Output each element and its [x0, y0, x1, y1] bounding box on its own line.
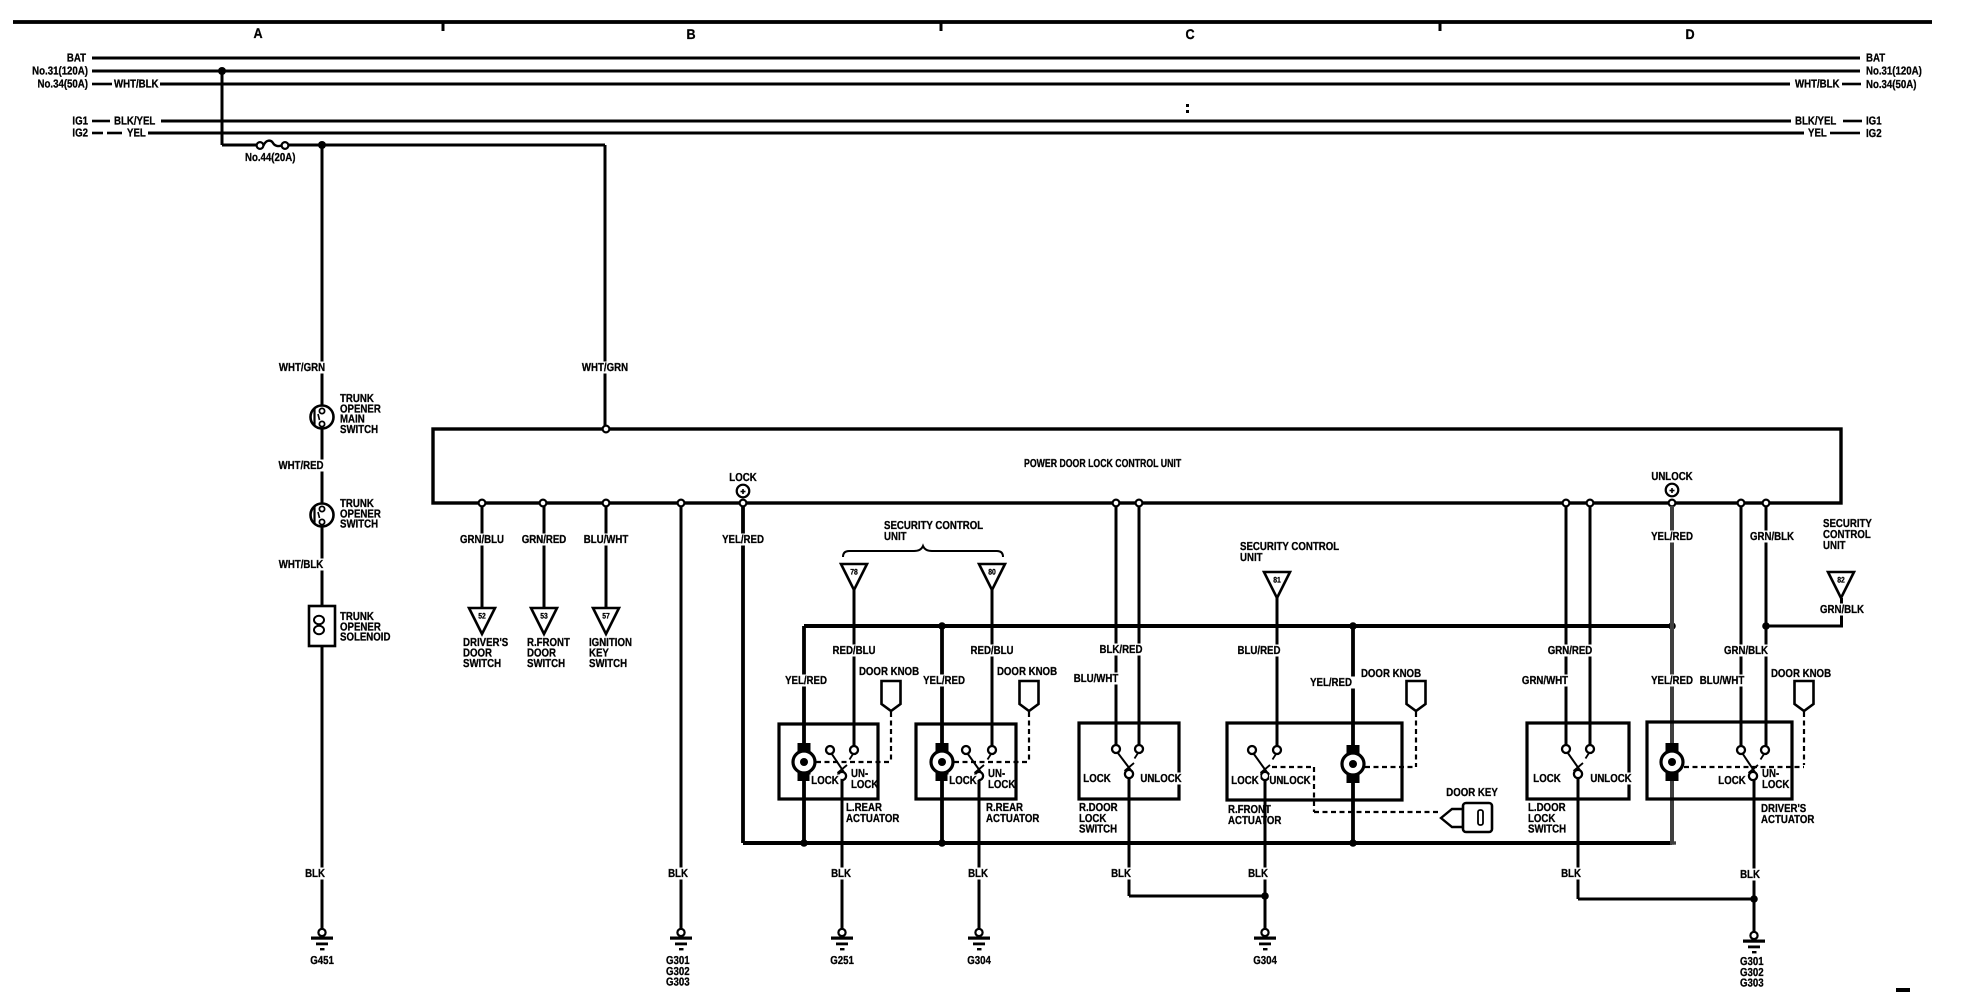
wire BLK l.door to driver's ground link — [1578, 898, 1754, 901]
pin at x=1139 on control unit bottom — [1136, 500, 1143, 507]
r.rear actuator box — [916, 724, 1016, 799]
wire BLK l.rear switch to ground G251 — [841, 780, 844, 930]
junction r.front motor lower bus — [1349, 839, 1357, 847]
svg-text:82: 82 — [1837, 576, 1845, 585]
wire YEL/RED l.rear motor drop — [802, 626, 806, 843]
switch l.door lock — [1562, 745, 1570, 753]
wire main switch to trunk opener switch WHT/RED — [321, 428, 324, 504]
svg-text:WHT/RED: WHT/RED — [278, 460, 323, 472]
svg-text:ACTUATOR: ACTUATOR — [846, 813, 900, 825]
label BLK trunk ground wire — [303, 868, 327, 880]
pin at x=482 on control unit bottom — [479, 500, 486, 507]
svg-text:BLK/YEL: BLK/YEL — [114, 116, 155, 128]
wire BLK driver's switch to ground G301 — [1753, 780, 1756, 933]
connector 57 ignition key switch — [593, 608, 619, 634]
svg-text:57: 57 — [602, 612, 610, 621]
svg-text:G451: G451 — [310, 955, 334, 967]
pin at x=1766 on control unit bottom — [1763, 500, 1770, 507]
svg-text:BLK/YEL: BLK/YEL — [1795, 116, 1836, 128]
connector 82 security control unit — [1828, 572, 1854, 598]
junction upper bus at unlock wire — [1668, 622, 1676, 630]
svg-text:UNIT: UNIT — [1240, 552, 1263, 564]
switch driver's actuator — [1737, 746, 1745, 754]
svg-text:LOCK: LOCK — [851, 779, 879, 791]
svg-text:GRN/RED: GRN/RED — [522, 534, 567, 546]
svg-text:LOCK: LOCK — [729, 472, 757, 484]
ground G304 r.front — [1261, 929, 1268, 936]
svg-text:SWITCH: SWITCH — [589, 658, 627, 670]
svg-text:SWITCH: SWITCH — [463, 658, 501, 670]
wire from No.31 rail down to fuse No.44 — [221, 71, 224, 145]
pin at x=543 on control unit bottom — [540, 500, 547, 507]
label WHT/GRN trunk branch — [277, 362, 327, 374]
svg-text:No.34(50A): No.34(50A) — [1866, 79, 1917, 91]
svg-text:G303: G303 — [1740, 978, 1764, 990]
wire YEL/RED unlock output gray — [1670, 506, 1674, 845]
l.rear actuator box — [779, 724, 878, 799]
svg-text:BAT: BAT — [1866, 53, 1885, 65]
junction upper bus r.rear — [938, 622, 946, 630]
svg-text:SOLENOID: SOLENOID — [340, 632, 390, 644]
wire GRN/BLK branch to connector 82 — [1766, 625, 1843, 628]
pin at x=606 on control unit bottom — [603, 500, 610, 507]
svg-text:DOOR KNOB: DOOR KNOB — [859, 666, 919, 678]
svg-text:BAT: BAT — [67, 53, 86, 65]
label LOCK l.door — [1532, 773, 1563, 785]
svg-text:YEL/RED: YEL/RED — [1651, 531, 1693, 543]
label YEL/RED lock wire — [719, 534, 767, 546]
svg-text:BLK: BLK — [1111, 868, 1131, 880]
door knob driver's — [1771, 668, 1831, 680]
ground G251 — [838, 929, 845, 936]
pin at x=1566 on control unit bottom — [1563, 500, 1570, 507]
ground G451 — [318, 929, 325, 936]
wire GRN/BLU to driver's door switch — [481, 506, 484, 608]
svg-text:SWITCH: SWITCH — [1079, 824, 1117, 836]
svg-text:YEL/RED: YEL/RED — [1651, 675, 1693, 687]
wire switch to solenoid WHT/BLK — [321, 526, 324, 606]
label GRN/BLK driver's upper — [1748, 531, 1797, 543]
junction BLK driver's ground link — [1750, 895, 1758, 903]
svg-text:POWER DOOR LOCK CONTROL UNIT: POWER DOOR LOCK CONTROL UNIT — [1024, 458, 1181, 470]
motor r.front actuator — [1347, 745, 1360, 755]
svg-text:GRN/BLK: GRN/BLK — [1724, 645, 1769, 657]
wire YEL/RED lock output down — [741, 506, 745, 843]
motor driver's actuator — [1666, 743, 1679, 753]
svg-text:RED/BLU: RED/BLU — [833, 645, 876, 657]
label BLU/WHT driver's — [1698, 675, 1747, 687]
label BLK r.front — [1246, 868, 1270, 880]
svg-text:DOOR KNOB: DOOR KNOB — [997, 666, 1057, 678]
svg-text:IG1: IG1 — [1866, 116, 1882, 128]
svg-text:53: 53 — [540, 612, 548, 621]
dashed link r.front switch to door key — [1272, 766, 1314, 768]
svg-text:78: 78 — [850, 568, 858, 577]
label YEL/RED r.front — [1307, 677, 1355, 689]
svg-text:WHT/BLK: WHT/BLK — [1795, 79, 1840, 91]
junction on No.31 rail — [218, 67, 226, 75]
label GRN/RED l.door — [1546, 645, 1595, 657]
wire BLU/WHT to r.door lock switch — [1115, 506, 1118, 745]
label BLU/RED — [1235, 645, 1283, 657]
svg-text:G251: G251 — [830, 955, 854, 967]
wire BLK control unit to ground G301 — [680, 506, 683, 930]
svg-text:YEL: YEL — [1808, 128, 1827, 140]
svg-text:52: 52 — [478, 612, 486, 621]
svg-text:SWITCH: SWITCH — [340, 424, 378, 436]
power door lock control unit box — [433, 429, 1841, 503]
wire BLK/YEL rail IG1 — [161, 120, 1791, 123]
l.door lock switch box — [1527, 723, 1629, 799]
wire YEL rail IG2 — [148, 132, 1804, 135]
svg-text:BLK: BLK — [831, 868, 851, 880]
wire GRN/RED to l.door lock switch — [1589, 506, 1592, 745]
svg-text:LOCK: LOCK — [988, 779, 1016, 791]
stray mark bottom right — [1896, 988, 1910, 992]
pin at x=1672 on control unit bottom — [1669, 500, 1676, 507]
label WHT/GRN control unit feed — [580, 362, 630, 374]
pin at x=681 on control unit bottom — [678, 500, 685, 507]
junction l.rear motor to lower bus — [800, 839, 808, 847]
dashed wire door knob l.rear — [890, 712, 892, 760]
svg-text:UNIT: UNIT — [884, 531, 907, 543]
svg-text:BLK: BLK — [1248, 868, 1268, 880]
wire BLK/RED to r.door lock switch — [1138, 506, 1141, 745]
label GRN/WHT l.door — [1520, 675, 1570, 687]
label YEL/RED unlock lower — [1648, 675, 1696, 687]
svg-text:80: 80 — [988, 568, 996, 577]
label BLK l.door — [1559, 868, 1583, 880]
junction GRN/BLK to security unit 82 — [1762, 622, 1770, 630]
svg-text:LOCK: LOCK — [1762, 779, 1790, 791]
switch r.front actuator — [1248, 746, 1256, 754]
wire YEL/RED r.rear motor drop — [940, 626, 944, 843]
junction fuse line to trunk-opener branch — [318, 141, 326, 149]
ground G301/G302/G303 left — [677, 929, 684, 936]
svg-text:BLU/WHT: BLU/WHT — [584, 534, 629, 546]
label BLK r.rear — [966, 868, 990, 880]
section tick A/B — [442, 22, 445, 31]
svg-text:BLK: BLK — [1561, 868, 1581, 880]
dashed wire door knob driver's — [1803, 712, 1805, 765]
wire BAT rail — [92, 57, 1860, 60]
label GRN/BLU — [458, 534, 507, 546]
svg-text:BLK: BLK — [668, 868, 688, 880]
switch r.door lock — [1112, 745, 1120, 753]
svg-text:ACTUATOR: ACTUATOR — [986, 813, 1040, 825]
svg-text:ACTUATOR: ACTUATOR — [1228, 815, 1282, 827]
svg-text:BLK: BLK — [968, 868, 988, 880]
label WHT/BLK trunk — [276, 559, 326, 571]
dashed link r.rear motor to door knob — [954, 761, 1029, 763]
svg-text:RED/BLU: RED/BLU — [971, 645, 1014, 657]
svg-text:81: 81 — [1273, 576, 1281, 585]
driver's actuator box — [1647, 722, 1792, 799]
connector 80 security control unit — [979, 564, 1005, 590]
connector 81 security control unit — [1264, 572, 1290, 598]
wire BLK r.door switch down — [1128, 778, 1131, 896]
wire RED/BLU from connector 78 — [853, 590, 856, 746]
stray colon mark top center — [1186, 104, 1189, 107]
label UNLOCK l.door — [1590, 773, 1632, 785]
pin at x=1590 on control unit bottom — [1587, 500, 1594, 507]
motor r.rear actuator — [936, 743, 949, 753]
brace security control unit — [843, 546, 1003, 557]
svg-text:YEL: YEL — [127, 128, 146, 140]
pin at x=1116 on control unit bottom — [1113, 500, 1120, 507]
trunk opener solenoid — [309, 606, 335, 646]
label UNLOCK r.door — [1140, 773, 1182, 785]
svg-text:UNLOCK: UNLOCK — [1140, 773, 1182, 785]
fuse No.44(20A) — [222, 144, 257, 147]
junction r.rear motor to lower bus — [938, 839, 946, 847]
pin WHT/GRN on control unit top — [603, 426, 610, 433]
wire trunk branch down to trunk opener main switch — [321, 145, 324, 406]
svg-text:LOCK: LOCK — [1533, 773, 1561, 785]
page top border line — [13, 20, 1932, 24]
svg-text:LOCK: LOCK — [1083, 773, 1111, 785]
svg-text:YEL/RED: YEL/RED — [785, 675, 827, 687]
pin at x=743 on control unit bottom — [740, 500, 747, 507]
svg-text:DOOR KNOB: DOOR KNOB — [1771, 668, 1831, 680]
svg-text:No.31(120A): No.31(120A) — [32, 66, 88, 78]
label YEL/RED l.rear — [782, 675, 830, 687]
trunk opener main switch — [311, 406, 334, 429]
label GRN/RED — [520, 534, 569, 546]
r.door lock switch box — [1079, 723, 1179, 799]
svg-text:B: B — [686, 26, 695, 42]
svg-text:GRN/WHT: GRN/WHT — [1522, 675, 1568, 687]
pin at x=1741 on control unit bottom — [1738, 500, 1745, 507]
dashed link driver's motor to door knob — [1684, 766, 1804, 768]
svg-text:BLU/WHT: BLU/WHT — [1074, 673, 1119, 685]
connector 52 driver's door switch — [469, 608, 495, 634]
svg-text:DOOR KNOB: DOOR KNOB — [1361, 668, 1421, 680]
svg-text:YEL/RED: YEL/RED — [1310, 677, 1352, 689]
svg-text:A: A — [253, 25, 262, 41]
label BLK/RED r.door — [1097, 644, 1145, 656]
wire WHT/BLK rail — [160, 83, 1790, 86]
wire lower lock/unlock bus — [743, 841, 1672, 845]
svg-text:LOCK: LOCK — [949, 775, 977, 787]
wire BLU/WHT to ignition key switch — [605, 506, 608, 608]
label LOCK driver's — [1717, 775, 1748, 787]
section tick C/D — [1439, 22, 1442, 31]
svg-text:LOCK: LOCK — [1718, 775, 1746, 787]
label YEL/RED r.rear — [920, 675, 968, 687]
label BLK driver's — [1738, 869, 1762, 881]
wire No.31(120A) rail — [92, 70, 1860, 73]
svg-text:UNIT: UNIT — [1823, 540, 1846, 552]
label UNLOCK r.front — [1269, 775, 1311, 787]
svg-text:D: D — [1685, 26, 1694, 42]
label BLK l.rear — [829, 868, 853, 880]
trunk opener switch — [311, 504, 334, 527]
dashed wire door knob r.front — [1415, 712, 1417, 767]
connector 78 security control unit — [841, 564, 867, 590]
svg-text:GRN/RED: GRN/RED — [1548, 645, 1593, 657]
svg-text:BLK: BLK — [305, 868, 325, 880]
svg-text:SWITCH: SWITCH — [527, 658, 565, 670]
motor l.rear actuator — [798, 743, 811, 753]
svg-text:GRN/BLU: GRN/BLU — [460, 534, 504, 546]
svg-text:IG2: IG2 — [72, 128, 88, 140]
svg-text:IG1: IG1 — [72, 116, 88, 128]
label LOCK l.rear — [810, 775, 841, 787]
svg-text:BLU/RED: BLU/RED — [1238, 645, 1281, 657]
svg-text:WHT/GRN: WHT/GRN — [582, 362, 628, 374]
svg-text:WHT/BLK: WHT/BLK — [114, 79, 159, 91]
svg-text:IG2: IG2 — [1866, 128, 1882, 140]
wire YEL/RED r.front motor — [1351, 626, 1355, 843]
label BLU/WHT — [582, 534, 631, 546]
svg-text:G303: G303 — [666, 977, 690, 989]
svg-text:SWITCH: SWITCH — [1528, 824, 1566, 836]
wire RED/BLU from connector 80 — [991, 590, 994, 746]
label LOCK r.front — [1230, 775, 1261, 787]
label BLU/WHT r.door — [1072, 673, 1121, 685]
label GRN/BLK driver's lower — [1722, 645, 1771, 657]
svg-text:LOCK: LOCK — [811, 775, 839, 787]
wire BLU/RED from connector 81 — [1276, 598, 1279, 746]
svg-text:YEL/RED: YEL/RED — [923, 675, 965, 687]
dashed link l.rear motor to door knob — [816, 761, 891, 763]
svg-text:G304: G304 — [1253, 955, 1277, 967]
label GRN/BLK connector 82 — [1818, 604, 1867, 616]
label LOCK r.rear — [948, 775, 979, 787]
wire GRN/RED to r.front door switch — [543, 506, 546, 608]
label BLK control unit ground — [666, 868, 690, 880]
wire solenoid to ground G451 BLK — [321, 646, 324, 930]
wire BLK l.door switch down — [1577, 778, 1580, 899]
wire BLK r.rear switch to ground G304 — [978, 780, 981, 930]
dashed link r.front motor to door knob — [1365, 766, 1416, 768]
switch r.rear actuator — [962, 746, 970, 754]
label RED/BLU right — [968, 645, 1016, 657]
wire GRN/WHT to l.door lock switch — [1565, 506, 1568, 745]
wire BLK r.front switch to ground G304 — [1264, 780, 1267, 930]
label WHT/RED — [276, 460, 326, 472]
switch l.rear actuator — [826, 746, 834, 754]
wire GRN/BLK to driver's actuator — [1765, 506, 1768, 746]
svg-text:UNLOCK: UNLOCK — [1269, 775, 1311, 787]
svg-text:DOOR KEY: DOOR KEY — [1446, 787, 1498, 799]
r.front actuator box — [1227, 723, 1402, 800]
svg-text:ACTUATOR: ACTUATOR — [1761, 814, 1815, 826]
svg-text:No.44(20A): No.44(20A) — [245, 152, 296, 164]
section tick B/C — [940, 22, 943, 31]
label RED/BLU left — [830, 645, 878, 657]
wire fuse line corner down to control unit — [604, 145, 607, 429]
svg-text:LOCK: LOCK — [1231, 775, 1259, 787]
svg-text:GRN/BLK: GRN/BLK — [1750, 531, 1795, 543]
connector 53 r.front door switch — [531, 608, 557, 634]
ground G304 r.rear — [975, 929, 982, 936]
wire BLK r.door to r.front ground link — [1129, 895, 1265, 898]
svg-text:G304: G304 — [967, 955, 991, 967]
junction upper bus r.front — [1349, 622, 1357, 630]
label BLK r.door — [1109, 868, 1133, 880]
svg-text:WHT/GRN: WHT/GRN — [279, 362, 325, 374]
wire upper unlock bus — [804, 624, 1672, 628]
wire BLU/WHT to driver's actuator — [1740, 506, 1743, 746]
svg-text:No.31(120A): No.31(120A) — [1866, 66, 1922, 78]
svg-text:SWITCH: SWITCH — [340, 519, 378, 531]
ground G301/G302/G303 right — [1750, 932, 1757, 939]
svg-text:No.34(50A): No.34(50A) — [38, 79, 89, 91]
svg-text:UNLOCK: UNLOCK — [1590, 773, 1632, 785]
label YEL/RED unlock upper — [1648, 531, 1696, 543]
svg-text:UNLOCK: UNLOCK — [1651, 471, 1693, 483]
svg-text:YEL/RED: YEL/RED — [722, 534, 764, 546]
label LOCK r.door — [1082, 773, 1113, 785]
svg-text:BLK: BLK — [1740, 869, 1760, 881]
svg-text:BLK/RED: BLK/RED — [1100, 644, 1143, 656]
dashed wire door knob r.rear — [1028, 712, 1030, 760]
svg-text:WHT/BLK: WHT/BLK — [279, 559, 324, 571]
svg-text:GRN/BLK: GRN/BLK — [1820, 604, 1865, 616]
junction BLK r.front — [1261, 892, 1269, 900]
svg-text:C: C — [1185, 26, 1194, 42]
svg-text:BLU/WHT: BLU/WHT — [1700, 675, 1745, 687]
